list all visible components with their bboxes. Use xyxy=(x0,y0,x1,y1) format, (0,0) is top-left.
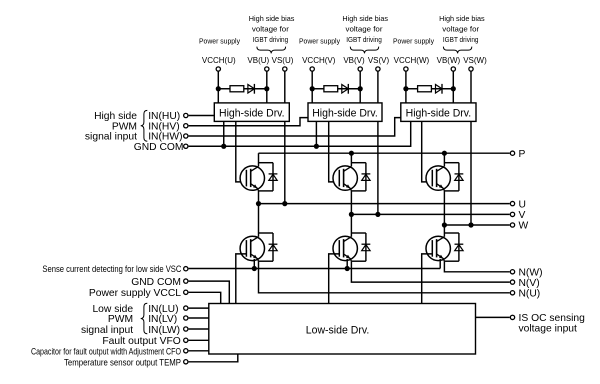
brace for high-side PWM inputs xyxy=(141,110,148,141)
terminal U xyxy=(510,201,514,205)
wire VSC emitter-sense rail xyxy=(189,268,441,270)
wire VCCH(W) to resistor R3 xyxy=(406,88,418,90)
svg-text:High side bias: High side bias xyxy=(439,14,485,23)
wire freewheel diode branch (Q6) xyxy=(458,233,460,261)
svg-text:voltage for: voltage for xyxy=(442,25,480,34)
svg-text:High side bias: High side bias xyxy=(342,14,388,23)
wire freewheel diode loop top (Q2) xyxy=(351,162,366,164)
svg-text:N(U): N(U) xyxy=(519,289,541,300)
terminal VSC xyxy=(184,267,188,271)
resistor R3 (bootstrap W) xyxy=(418,86,432,92)
wire driver U2 gate feed to Q2 xyxy=(329,121,340,181)
wire GND COM (lower) to driver U4 xyxy=(189,281,230,303)
wire V output line xyxy=(351,213,509,215)
brace for low-side PWM inputs xyxy=(141,303,148,333)
wire VCCH(W) lead down to driver xyxy=(405,71,407,103)
wire Q2 collector riser xyxy=(350,153,352,166)
svg-text:Sense current detecting for lo: Sense current detecting for low side VSC xyxy=(42,264,181,274)
terminal VCCH(W) xyxy=(404,67,408,71)
wire driver U1 gate feed to Q1 xyxy=(236,121,247,181)
svg-text:IN(LV): IN(LV) xyxy=(148,314,177,325)
svg-text:VCCH(W): VCCH(W) xyxy=(394,56,430,65)
terminal GND COM (upper) xyxy=(184,144,188,148)
wire Q1 collector riser xyxy=(258,153,260,166)
wire VCCH(V) lead down to driver xyxy=(311,71,313,103)
junction VCCH(W)/resistor xyxy=(403,86,408,91)
svg-text:High-side Drv.: High-side Drv. xyxy=(312,108,378,120)
terminal IN(HU) xyxy=(184,113,188,117)
wire VCCL to driver U4 xyxy=(189,292,221,303)
wire freewheel diode branch (Q4) xyxy=(272,233,274,261)
wire Q1 emitter to U line xyxy=(258,191,260,204)
terminal VS(V) xyxy=(376,67,380,71)
brace under IGBT driving label (V phase) xyxy=(350,47,378,54)
wire driver U4 gate feed to Q6 xyxy=(422,254,433,304)
svg-text:voltage input: voltage input xyxy=(519,324,578,335)
junction VB(U)/diode xyxy=(264,86,269,91)
wire driver U4 gate feed to Q4 xyxy=(236,254,247,304)
wire VFO to driver U4 xyxy=(189,339,209,341)
wire freewheel diode loop top (Q4) xyxy=(259,232,274,234)
wire freewheel diode loop bottom (Q1) xyxy=(259,190,274,192)
svg-text:Temperature sensor output TEMP: Temperature sensor output TEMP xyxy=(64,358,181,368)
junction VCCH(U)/resistor xyxy=(216,86,221,91)
terminal VFO xyxy=(184,338,188,342)
wire VB(U) lead down to driver xyxy=(266,71,268,103)
svg-text:High-side Drv.: High-side Drv. xyxy=(219,108,285,120)
terminal CFO xyxy=(184,349,188,353)
terminal VCCL xyxy=(184,290,188,294)
terminal N(W) xyxy=(510,270,514,274)
wire driver U3 gate feed to Q3 xyxy=(422,121,433,181)
wire IN(HW) to driver U3 xyxy=(189,118,401,136)
wire freewheel diode loop bottom (Q2) xyxy=(351,190,366,192)
terminal IN(HW) xyxy=(184,134,188,138)
resistor R1 (bootstrap U) xyxy=(230,86,244,92)
wire VCCH(U) to resistor R1 xyxy=(218,88,230,90)
junction VB(V)/diode xyxy=(358,86,363,91)
svg-text:Power supply: Power supply xyxy=(393,37,434,46)
svg-text:signal input: signal input xyxy=(81,325,133,336)
terminal VB(W) xyxy=(451,67,455,71)
transistor Q5 (low-side V) xyxy=(333,236,357,261)
svg-text:U: U xyxy=(519,199,526,210)
resistor R2 (bootstrap V) xyxy=(324,86,338,92)
svg-text:GND COM: GND COM xyxy=(131,277,181,288)
svg-text:V: V xyxy=(519,210,526,221)
wire IN(HU) to driver U1 xyxy=(189,115,215,117)
svg-text:IN(LW): IN(LW) xyxy=(148,325,180,336)
junction W line / Q3 emitter / Q6 collector xyxy=(442,222,447,227)
svg-text:VS(W): VS(W) xyxy=(463,56,487,65)
svg-text:voltage for: voltage for xyxy=(252,25,290,34)
svg-text:GND COM: GND COM xyxy=(134,142,184,153)
label: High side bias voltage for IGBT driving (W phase) xyxy=(439,14,485,44)
junction GND bus / driver U1 xyxy=(221,144,226,149)
junction V line / Q2 emitter / Q5 collector xyxy=(349,212,354,217)
terminal IS OC sensing voltage input xyxy=(510,315,514,319)
terminal N(V) xyxy=(510,280,514,284)
wire P bus xyxy=(259,152,510,154)
svg-text:IGBT driving: IGBT driving xyxy=(253,35,289,44)
label: High side bias voltage for IGBT driving (V phase) xyxy=(342,14,388,44)
wire freewheel diode loop bottom (Q4) xyxy=(259,260,274,262)
terminal N(U) xyxy=(510,291,514,295)
transistor Q1 (high-side U) xyxy=(240,166,264,191)
diode D8 (freewheel) xyxy=(362,244,371,251)
wire freewheel diode loop top (Q5) xyxy=(351,232,366,234)
svg-text:VCCH(V): VCCH(V) xyxy=(302,56,336,65)
transistor Q6 (low-side W) xyxy=(426,236,450,261)
wire Q4 collector riser xyxy=(258,204,260,237)
wire Q4 emitter to N(U) line xyxy=(259,261,510,293)
wire VCCH(V) to resistor R2 xyxy=(312,88,324,90)
svg-text:VCCH(U): VCCH(U) xyxy=(202,56,236,65)
wire freewheel diode loop top (Q1) xyxy=(259,162,274,164)
terminal VB(V) xyxy=(358,67,362,71)
junction U line / Q1 emitter / Q4 collector xyxy=(256,201,261,206)
terminal GND COM (lower) xyxy=(184,279,188,283)
junction P bus / Q2 collector xyxy=(349,151,354,156)
wire driver U4 gate feed to Q5 xyxy=(329,254,340,304)
wire IN(LV) to driver U4 xyxy=(189,317,209,319)
wire freewheel diode branch (Q2) xyxy=(365,163,367,191)
wire Q6 collector riser xyxy=(443,225,445,237)
wire Q5 emitter sense xyxy=(346,259,348,269)
svg-text:W: W xyxy=(519,221,529,232)
op-amp U2: High-side driver box (V phase) xyxy=(308,103,382,122)
terminal VS(U) xyxy=(283,67,287,71)
terminal VCCH(V) xyxy=(310,67,314,71)
junction P bus / Q3 collector xyxy=(442,151,447,156)
wire Q2 emitter to V line xyxy=(350,191,352,215)
transistor Q4 (low-side U) xyxy=(240,236,264,261)
svg-text:N(V): N(V) xyxy=(519,278,540,289)
brace under IGBT driving label (U phase) xyxy=(257,47,286,54)
svg-text:VS(U): VS(U) xyxy=(272,56,294,65)
diode D7 (freewheel) xyxy=(269,244,278,251)
wire VS(V) lead down to driver xyxy=(377,71,379,103)
diode D2 (bootstrap V) xyxy=(342,84,349,94)
terminal IN(HV) xyxy=(184,124,188,128)
wire GND COM bus (upper) xyxy=(189,121,411,146)
wire IS OC sensing output xyxy=(476,316,510,318)
junction V line / VS(V) xyxy=(375,212,380,217)
wire VS(V) dropper to V line xyxy=(377,121,379,214)
wire freewheel diode branch (Q1) xyxy=(272,163,274,191)
svg-text:Capacitor for fault output wid: Capacitor for fault output width Adjustm… xyxy=(31,347,181,357)
terminal IN(LW) xyxy=(184,327,188,331)
diode D1 (bootstrap U) xyxy=(248,84,255,94)
svg-text:Low-side Drv.: Low-side Drv. xyxy=(306,325,370,337)
wire VB(W) lead down to driver xyxy=(452,71,454,103)
wire IN(HV) to driver U2 xyxy=(189,118,308,126)
wire Q6 emitter sense xyxy=(439,259,441,269)
wire Q4 emitter sense xyxy=(253,259,255,269)
svg-text:signal input: signal input xyxy=(85,132,137,143)
wire VS(W) lead down to driver xyxy=(470,71,472,103)
wire Q3 emitter to W line xyxy=(443,191,445,225)
wire U output line xyxy=(259,203,510,205)
label: High side bias voltage for IGBT driving (U phase) xyxy=(249,14,295,44)
svg-text:IGBT driving: IGBT driving xyxy=(346,35,382,44)
svg-text:VS(V): VS(V) xyxy=(368,56,390,65)
wire CFO to driver U4 xyxy=(189,350,209,352)
svg-text:VB(U): VB(U) xyxy=(247,56,269,65)
junction rail / Q5 emitter xyxy=(345,266,350,271)
wire VS(U) lead down to driver xyxy=(284,71,286,103)
terminal TEMP xyxy=(184,360,188,364)
wire VS(U) dropper to U line xyxy=(284,121,286,203)
svg-text:High side bias: High side bias xyxy=(249,14,295,23)
diode D4 (freewheel) xyxy=(269,174,278,181)
junction W line / VS(W) xyxy=(468,222,473,227)
svg-text:Power supply: Power supply xyxy=(299,37,340,46)
wire freewheel diode branch (Q5) xyxy=(365,233,367,261)
wire freewheel diode loop bottom (Q5) xyxy=(351,260,366,262)
wire freewheel diode loop top (Q6) xyxy=(444,232,459,234)
junction U line / VS(U) xyxy=(282,201,287,206)
wire freewheel diode loop top (Q3) xyxy=(444,162,459,164)
op-amp U1: High-side driver box (U phase) xyxy=(214,103,289,122)
diode D3 (bootstrap W) xyxy=(436,84,443,94)
terminal IN(LV) xyxy=(184,316,188,320)
junction rail / Q4 emitter xyxy=(252,266,257,271)
wire Q5 emitter to N(V) line xyxy=(351,261,509,282)
wire freewheel diode loop bottom (Q6) xyxy=(444,260,459,262)
svg-text:IN(HW): IN(HW) xyxy=(148,132,182,143)
wire resistor R2 to VB(V) through diode xyxy=(338,88,361,90)
transistor Q2 (high-side V) xyxy=(333,166,357,191)
wire freewheel diode branch (Q3) xyxy=(458,163,460,191)
terminal V xyxy=(510,212,514,216)
wire TEMP to driver U4 xyxy=(189,354,238,362)
terminal VCCH(U) xyxy=(216,67,220,71)
wire driver U2 GND pin xyxy=(315,121,317,146)
wire resistor R3 to VB(W) through diode xyxy=(431,88,453,90)
transistor Q3 (high-side W) xyxy=(426,166,450,191)
wire VB(V) lead down to driver xyxy=(359,71,361,103)
svg-text:High-side Drv.: High-side Drv. xyxy=(406,108,472,120)
wire IN(LW) to driver U4 xyxy=(189,328,209,330)
svg-text:voltage for: voltage for xyxy=(346,25,384,34)
junction VCCH(V)/resistor xyxy=(310,86,315,91)
terminal IN(LU) xyxy=(184,306,188,310)
wire VCCH(U) lead down to driver xyxy=(217,71,219,103)
svg-text:IS OC sensing: IS OC sensing xyxy=(519,313,586,324)
wire freewheel diode loop bottom (Q3) xyxy=(444,190,459,192)
svg-text:IGBT driving: IGBT driving xyxy=(443,35,479,44)
svg-text:Power supply: Power supply xyxy=(199,37,240,46)
brace under IGBT driving label (W phase) xyxy=(443,47,471,54)
svg-text:Fault output VFO: Fault output VFO xyxy=(102,336,180,347)
diode D6 (freewheel) xyxy=(455,174,464,181)
svg-text:P: P xyxy=(519,149,526,160)
diode D9 (freewheel) xyxy=(455,244,464,251)
wire Q3 collector riser xyxy=(443,153,445,166)
svg-text:VB(V): VB(V) xyxy=(343,56,365,65)
terminal VB(U) xyxy=(265,67,269,71)
wire driver U1 GND pin xyxy=(223,121,225,146)
diode D5 (freewheel) xyxy=(362,174,371,181)
junction VB(W)/diode xyxy=(451,86,456,91)
svg-text:VB(W): VB(W) xyxy=(437,56,461,65)
svg-text:Power supply VCCL: Power supply VCCL xyxy=(89,288,181,299)
op-amp U3: High-side driver box (W phase) xyxy=(401,103,476,122)
terminal W xyxy=(510,223,514,227)
op-amp U4: Low-side driver box xyxy=(209,304,476,355)
wire IN(LU) to driver U4 xyxy=(189,307,209,309)
svg-text:PWM: PWM xyxy=(108,314,133,325)
wire Q6 emitter to N(W) line xyxy=(444,261,509,272)
wire Q5 collector riser xyxy=(350,214,352,236)
terminal VS(W) xyxy=(469,67,473,71)
label IS OC sensing voltage input xyxy=(519,313,586,335)
terminal P xyxy=(510,151,514,155)
wire resistor R1 to VB(U) through diode xyxy=(244,88,267,90)
wire VS(W) dropper to W line xyxy=(470,121,472,225)
junction GND bus / driver U2 xyxy=(314,144,319,149)
wire W output line xyxy=(444,224,509,226)
